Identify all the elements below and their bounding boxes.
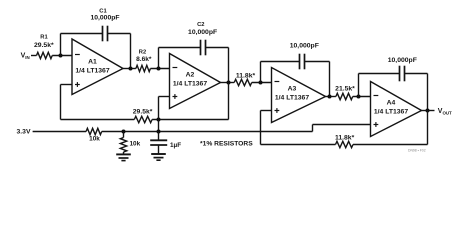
note 1% resistors (200, 141, 253, 148)
capacitor C4 10,000pF (359, 57, 428, 81)
node 3.3V label (17, 128, 31, 135)
svg-text:1/4 LT1367: 1/4 LT1367 (275, 95, 309, 102)
svg-text:*1% RESISTORS: *1% RESISTORS (200, 141, 253, 148)
wire A2 output (221, 82, 235, 84)
wire A1 + down leg (60, 85, 62, 120)
node A1 output junction (129, 67, 133, 71)
resistor 11.8k A2 to A3 (234, 73, 255, 86)
wire C2 right vertical (228, 48, 230, 83)
wire 1uF bottom lead (158, 145, 160, 154)
svg-text:10,000pF: 10,000pF (388, 57, 417, 64)
node junction C3 left (259, 81, 263, 85)
wire feedback vertical to A3 + (260, 111, 262, 145)
svg-text:A3: A3 (288, 86, 297, 93)
resistor 21.5k A3 to A4 (335, 86, 355, 100)
resistor 10k shunt (120, 138, 140, 153)
wire A1 output (123, 68, 136, 70)
wire VIN to R1 (31, 55, 37, 57)
svg-text:A2: A2 (186, 72, 195, 79)
node divider junction (122, 130, 126, 134)
svg-text:R1: R1 (40, 35, 48, 41)
ground at 1uF (151, 154, 166, 160)
wire VOUT feedback vertical (427, 111, 429, 145)
wire 10k shunt bottom lead (123, 152, 125, 155)
wire A3 output (326, 96, 336, 98)
wire into A3 noninverting input (261, 110, 272, 112)
svg-text:1/4 LT1367: 1/4 LT1367 (75, 68, 109, 75)
node junction R2/C2 (157, 67, 161, 71)
svg-text:R2: R2 (139, 50, 146, 56)
wire 1uF top lead (158, 132, 160, 141)
wire C1 left vertical (60, 34, 62, 56)
svg-text:3.3V: 3.3V (17, 128, 31, 135)
wire A2 output down leg (228, 83, 230, 120)
wire rail jog up (312, 125, 314, 132)
wire rail to A4 noninverting input (313, 124, 371, 126)
op-amp A2 1/4 LT1367 (170, 54, 221, 109)
wire C3 right vertical (329, 62, 331, 97)
op-amp A4 1/4 LT1367 (371, 82, 422, 137)
resistor R1 29.5k (34, 35, 54, 59)
wire 3.3V rail middle (102, 131, 313, 133)
wire 10k shunt top lead (123, 132, 125, 138)
wire y120 left segment (61, 119, 135, 121)
wire y120 right segment (152, 119, 228, 121)
svg-text:1/4 LT1367: 1/4 LT1367 (374, 109, 408, 116)
resistor R2 8.6k (136, 50, 152, 72)
svg-text:DN98 • F02: DN98 • F02 (408, 149, 426, 153)
svg-text:1/4 LT1367: 1/4 LT1367 (173, 81, 207, 88)
wire A2 noninverting input (159, 96, 170, 98)
node VOUT junction (426, 109, 430, 113)
capacitor C3 10,000pF (261, 42, 330, 69)
wire to A4 inverting input (353, 96, 371, 98)
svg-text:21.5k*: 21.5k* (335, 86, 355, 93)
svg-text:10k: 10k (89, 135, 100, 142)
wire C3 left vertical (260, 62, 262, 83)
svg-text:1µF: 1µF (170, 142, 181, 149)
svg-text:C2: C2 (197, 22, 204, 28)
svg-text:10,000pF: 10,000pF (90, 14, 119, 21)
svg-text:29.5k*: 29.5k* (133, 108, 153, 115)
wire C4 left vertical (358, 74, 360, 97)
resistor 11.8k feedback (335, 135, 355, 148)
wire R1 to A1 inverting input (52, 55, 72, 57)
svg-text:11.8k*: 11.8k* (236, 73, 256, 80)
node A3 output junction (328, 95, 332, 99)
capacitor 1µF bypass (150, 140, 181, 149)
svg-text:10k: 10k (130, 141, 141, 148)
note figure number (408, 149, 426, 153)
capacitor C1 10,000pF (61, 9, 131, 42)
node VOUT label (438, 108, 452, 115)
svg-text:11.8k*: 11.8k* (335, 135, 355, 142)
wire C2 left vertical (158, 48, 160, 69)
svg-text:29.5k*: 29.5k* (34, 42, 54, 49)
wire A4 output to VOUT (422, 110, 435, 112)
node A2 output junction (227, 81, 231, 85)
node bypass junction (157, 130, 161, 134)
node A2 bias junction (157, 118, 161, 122)
resistor 29.5k feedback (133, 108, 153, 122)
wire to A3 inverting input (252, 82, 272, 84)
node VIN label (21, 53, 30, 60)
svg-text:A4: A4 (387, 100, 396, 107)
op-amp A1 1/4 LT1367 (72, 39, 123, 95)
wire C4 right vertical (427, 74, 429, 111)
capacitor C2 10,000pF (159, 22, 229, 55)
svg-text:10,000pF: 10,000pF (188, 29, 217, 36)
wire 3.3V rail left (33, 131, 87, 133)
wire A1 noninverting input (61, 84, 73, 86)
svg-text:A1: A1 (88, 59, 97, 66)
wire A2 + vertical (158, 97, 160, 132)
resistor 10k series (86, 128, 102, 142)
wire C1 right vertical (130, 34, 132, 69)
wire R2 to A2 inverting input (150, 68, 169, 70)
op-amp A3 1/4 LT1367 (272, 68, 326, 123)
svg-text:8.6k*: 8.6k* (136, 56, 152, 63)
wire feedback bottom right (353, 144, 428, 146)
svg-text:10,000pF: 10,000pF (290, 42, 319, 49)
node junction C4 left (357, 95, 361, 99)
node junction R1/C1 (59, 54, 63, 58)
wire feedback bottom left (261, 144, 336, 146)
ground at 10k (116, 154, 131, 160)
